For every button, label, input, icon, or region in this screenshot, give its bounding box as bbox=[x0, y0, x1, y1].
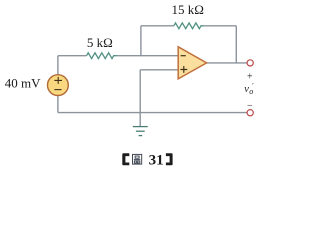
svg-text:+: + bbox=[247, 71, 253, 82]
svg-text:31: 31 bbox=[149, 153, 164, 169]
svg-text:′: ′ bbox=[252, 82, 254, 90]
svg-text:−: − bbox=[247, 101, 253, 112]
svg-text:5 kΩ: 5 kΩ bbox=[87, 35, 113, 50]
svg-text:40 mV: 40 mV bbox=[5, 76, 41, 91]
svg-text:15 kΩ: 15 kΩ bbox=[171, 2, 203, 17]
